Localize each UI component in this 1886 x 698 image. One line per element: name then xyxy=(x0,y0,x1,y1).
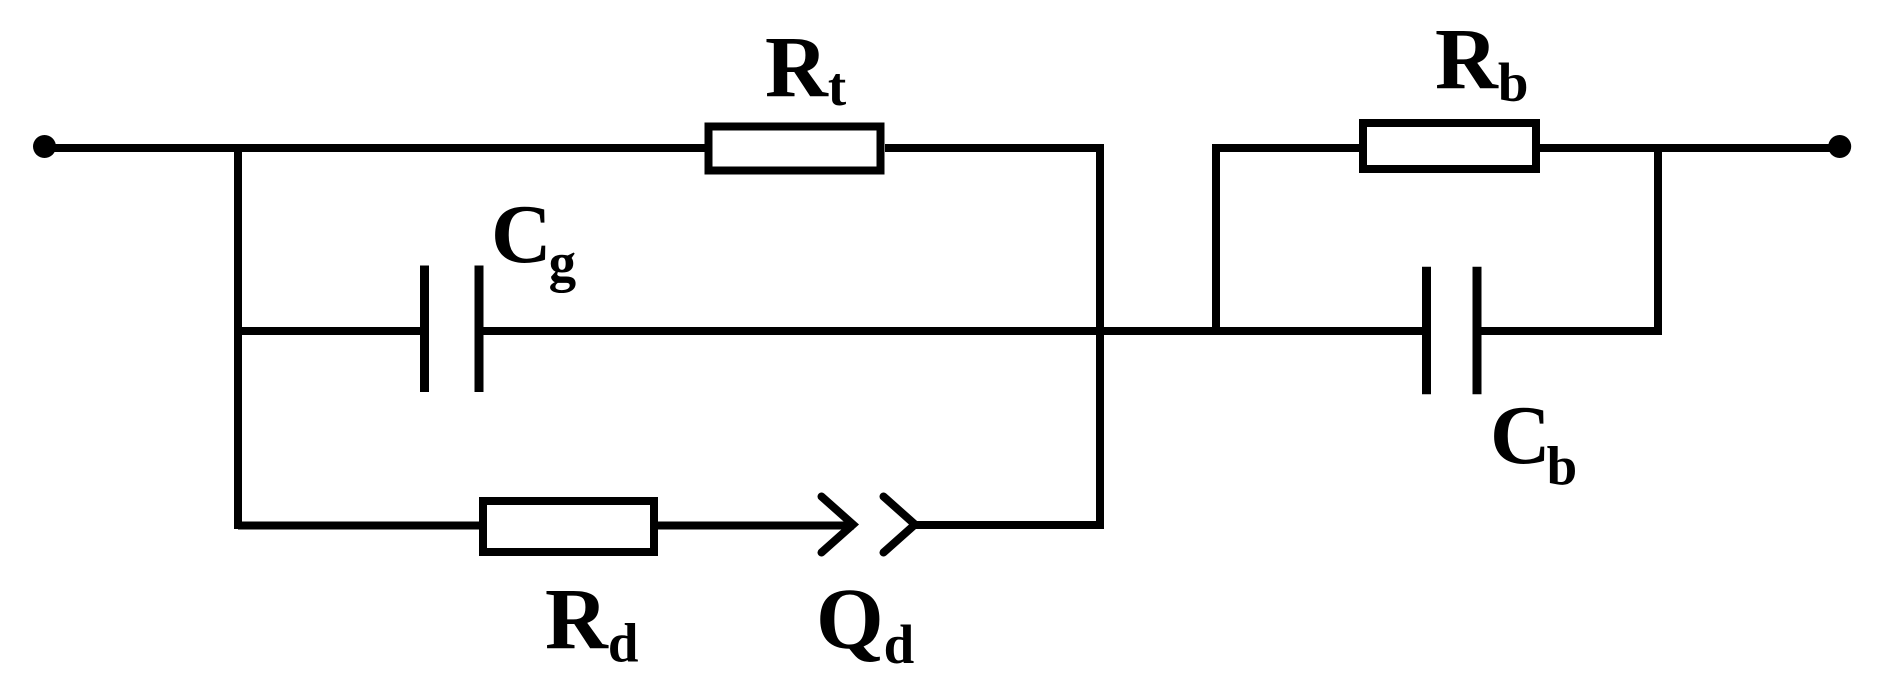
wire: capacitor Cb to node D xyxy=(1481,327,1662,335)
resistor Rd xyxy=(483,501,654,552)
wire: left terminal to node A xyxy=(45,144,243,152)
wire: node C to resistor Rb xyxy=(1216,144,1363,152)
wire: CPE Qd to node B xyxy=(914,521,1104,529)
wire: resistor Rt to node B xyxy=(885,144,1104,152)
svg-text:Cg: Cg xyxy=(491,188,576,293)
wire: resistor Rd to CPE Qd xyxy=(658,522,854,530)
resistor Rb xyxy=(1363,123,1536,169)
svg-text:Qd: Qd xyxy=(816,570,914,675)
wire: node D to right terminal xyxy=(1658,144,1840,152)
node B vertical wire (first network right rail) xyxy=(1096,144,1104,529)
svg-text:Rd: Rd xyxy=(545,570,638,674)
node C vertical wire (second network left rail) xyxy=(1212,144,1220,335)
CPE Qd xyxy=(822,497,916,553)
resistor Rt xyxy=(709,127,881,171)
capacitor Cb xyxy=(1427,267,1478,395)
node A vertical wire (left branch rail) xyxy=(234,144,242,529)
wire: capacitor Cg to node B xyxy=(483,327,1104,335)
wire: node B to node C xyxy=(1100,327,1220,335)
wire: resistor Rb to node D xyxy=(1540,144,1662,152)
left terminal node xyxy=(33,135,56,158)
right terminal node xyxy=(1828,135,1851,158)
wire: node A to resistor Rt xyxy=(238,144,708,152)
wire: node A to resistor Rd xyxy=(238,522,483,530)
svg-text:Cb: Cb xyxy=(1490,389,1577,497)
capacitor Cg xyxy=(425,266,480,393)
wire: node C to capacitor Cb xyxy=(1216,327,1423,335)
svg-text:Rt: Rt xyxy=(765,18,847,117)
node D vertical wire (second network right rail) xyxy=(1654,144,1662,335)
wire: node A to capacitor Cg xyxy=(238,327,421,335)
svg-text:Rb: Rb xyxy=(1435,10,1528,113)
